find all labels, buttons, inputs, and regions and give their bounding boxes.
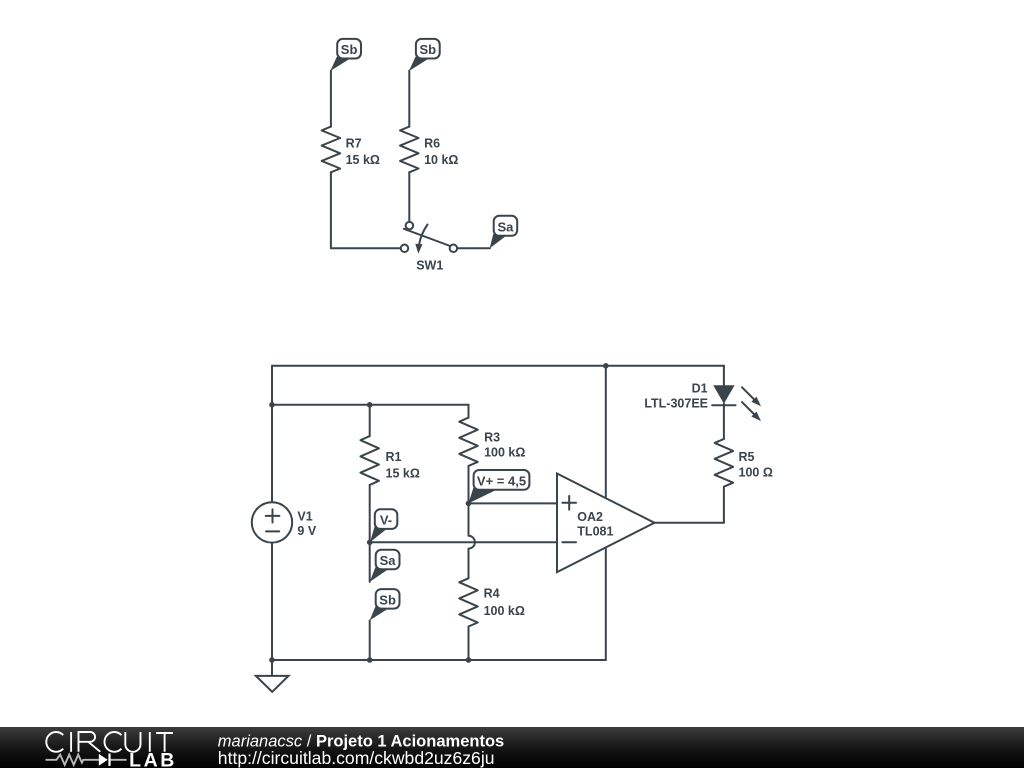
svg-text:TL081: TL081 xyxy=(577,524,613,538)
CircuitLab logo wordmark CIRCUIT (hand-drawn thin strokes) xyxy=(46,732,173,752)
node junction op-amp V+ supply tap xyxy=(603,363,609,369)
wire LED cathode to R5 xyxy=(723,404,725,439)
resistor R3 xyxy=(459,405,525,504)
wire ground rail xyxy=(272,659,606,661)
switch SW1 xyxy=(401,222,457,273)
svg-text:100 kΩ: 100 kΩ xyxy=(484,604,525,618)
wire switch right terminal to Sa anchor xyxy=(457,247,490,249)
svg-text:OA2: OA2 xyxy=(577,510,603,524)
svg-text:10 kΩ: 10 kΩ xyxy=(424,153,458,167)
node junction V+ xyxy=(466,501,472,507)
svg-text:15 kΩ: 15 kΩ xyxy=(346,153,380,167)
svg-text:R5: R5 xyxy=(739,450,755,464)
node junction V1 top xyxy=(269,402,275,408)
flag V+ = 4,5 xyxy=(469,470,530,503)
node junction ground rail R4 xyxy=(466,657,472,663)
resistor R6 xyxy=(400,127,458,173)
svg-text:Sb: Sb xyxy=(341,42,358,57)
wire R7 branch (Sb anchor down through R7 to switch left terminal) xyxy=(331,71,401,249)
wire stub V- node down to Sa anchor xyxy=(369,542,371,582)
flag Sb (top-left) xyxy=(330,39,361,71)
svg-text:http://circuitlab.com/ckwbd2uz: http://circuitlab.com/ckwbd2uz6z6ju xyxy=(218,748,495,768)
wire op-amp inverting input (V- node to op-amp) xyxy=(370,541,557,543)
wire op-amp output to R5 bottom xyxy=(655,522,724,524)
svg-text:LAB: LAB xyxy=(129,749,177,768)
svg-text:Sa: Sa xyxy=(497,219,514,234)
resistor R1 xyxy=(360,405,419,543)
ground symbol xyxy=(256,660,289,692)
node junction ground rail Sb xyxy=(367,657,373,663)
wire Sb anchor down to ground rail xyxy=(369,620,371,660)
flag Sb (top-middle) xyxy=(409,39,440,71)
resistor R7 xyxy=(322,127,380,173)
svg-text:LTL-307EE: LTL-307EE xyxy=(644,396,708,410)
svg-text:9 V: 9 V xyxy=(297,524,316,538)
voltage source V1 xyxy=(252,366,317,660)
svg-text:100 Ω: 100 Ω xyxy=(739,465,773,479)
svg-text:Sa: Sa xyxy=(380,553,397,568)
svg-text:V+ = 4,5: V+ = 4,5 xyxy=(477,473,526,488)
svg-text:V-: V- xyxy=(380,513,392,528)
wire second rail (V1+ to R1 and R3 tops) xyxy=(272,404,469,406)
svg-text:R4: R4 xyxy=(484,587,500,601)
wire op-amp V+ supply xyxy=(605,366,607,498)
wire with hop (V+ node down to R4, jumping over V- wire) xyxy=(469,503,475,578)
flag Sa (lower) xyxy=(370,550,400,582)
node junction R1 top xyxy=(367,402,373,408)
svg-text:D1: D1 xyxy=(692,381,708,395)
svg-text:SW1: SW1 xyxy=(416,259,443,273)
node junction ground rail V1 xyxy=(269,657,275,663)
logo resistor-diode glyph xyxy=(46,755,99,765)
svg-text:100 kΩ: 100 kΩ xyxy=(484,446,525,460)
node junction V- xyxy=(367,540,373,546)
wire LED branch top xyxy=(723,366,725,385)
flag Sa (top-right) xyxy=(490,216,518,248)
resistor R5 xyxy=(715,439,773,523)
svg-text:R3: R3 xyxy=(484,431,500,445)
flag Sb (lower) xyxy=(370,589,400,620)
svg-text:R7: R7 xyxy=(346,137,362,151)
wire top rail (V1+ up and across to LED anode) xyxy=(272,366,724,405)
flag V- xyxy=(370,509,397,542)
svg-text:R1: R1 xyxy=(386,450,402,464)
wire op-amp V- supply xyxy=(605,547,607,660)
svg-text:Sb: Sb xyxy=(379,592,396,607)
svg-text:R6: R6 xyxy=(424,137,440,151)
diode D1 LED xyxy=(644,381,761,421)
op-amp OA2 xyxy=(557,474,655,573)
svg-text:Sb: Sb xyxy=(419,42,436,57)
resistor R4 xyxy=(459,578,525,660)
svg-text:V1: V1 xyxy=(297,509,312,523)
svg-text:15 kΩ: 15 kΩ xyxy=(386,466,420,480)
wire op-amp non-inverting input (V+ node to op-amp) xyxy=(469,502,558,504)
wire R6 branch (Sb anchor down through R6 to switch top terminal) xyxy=(408,71,410,222)
